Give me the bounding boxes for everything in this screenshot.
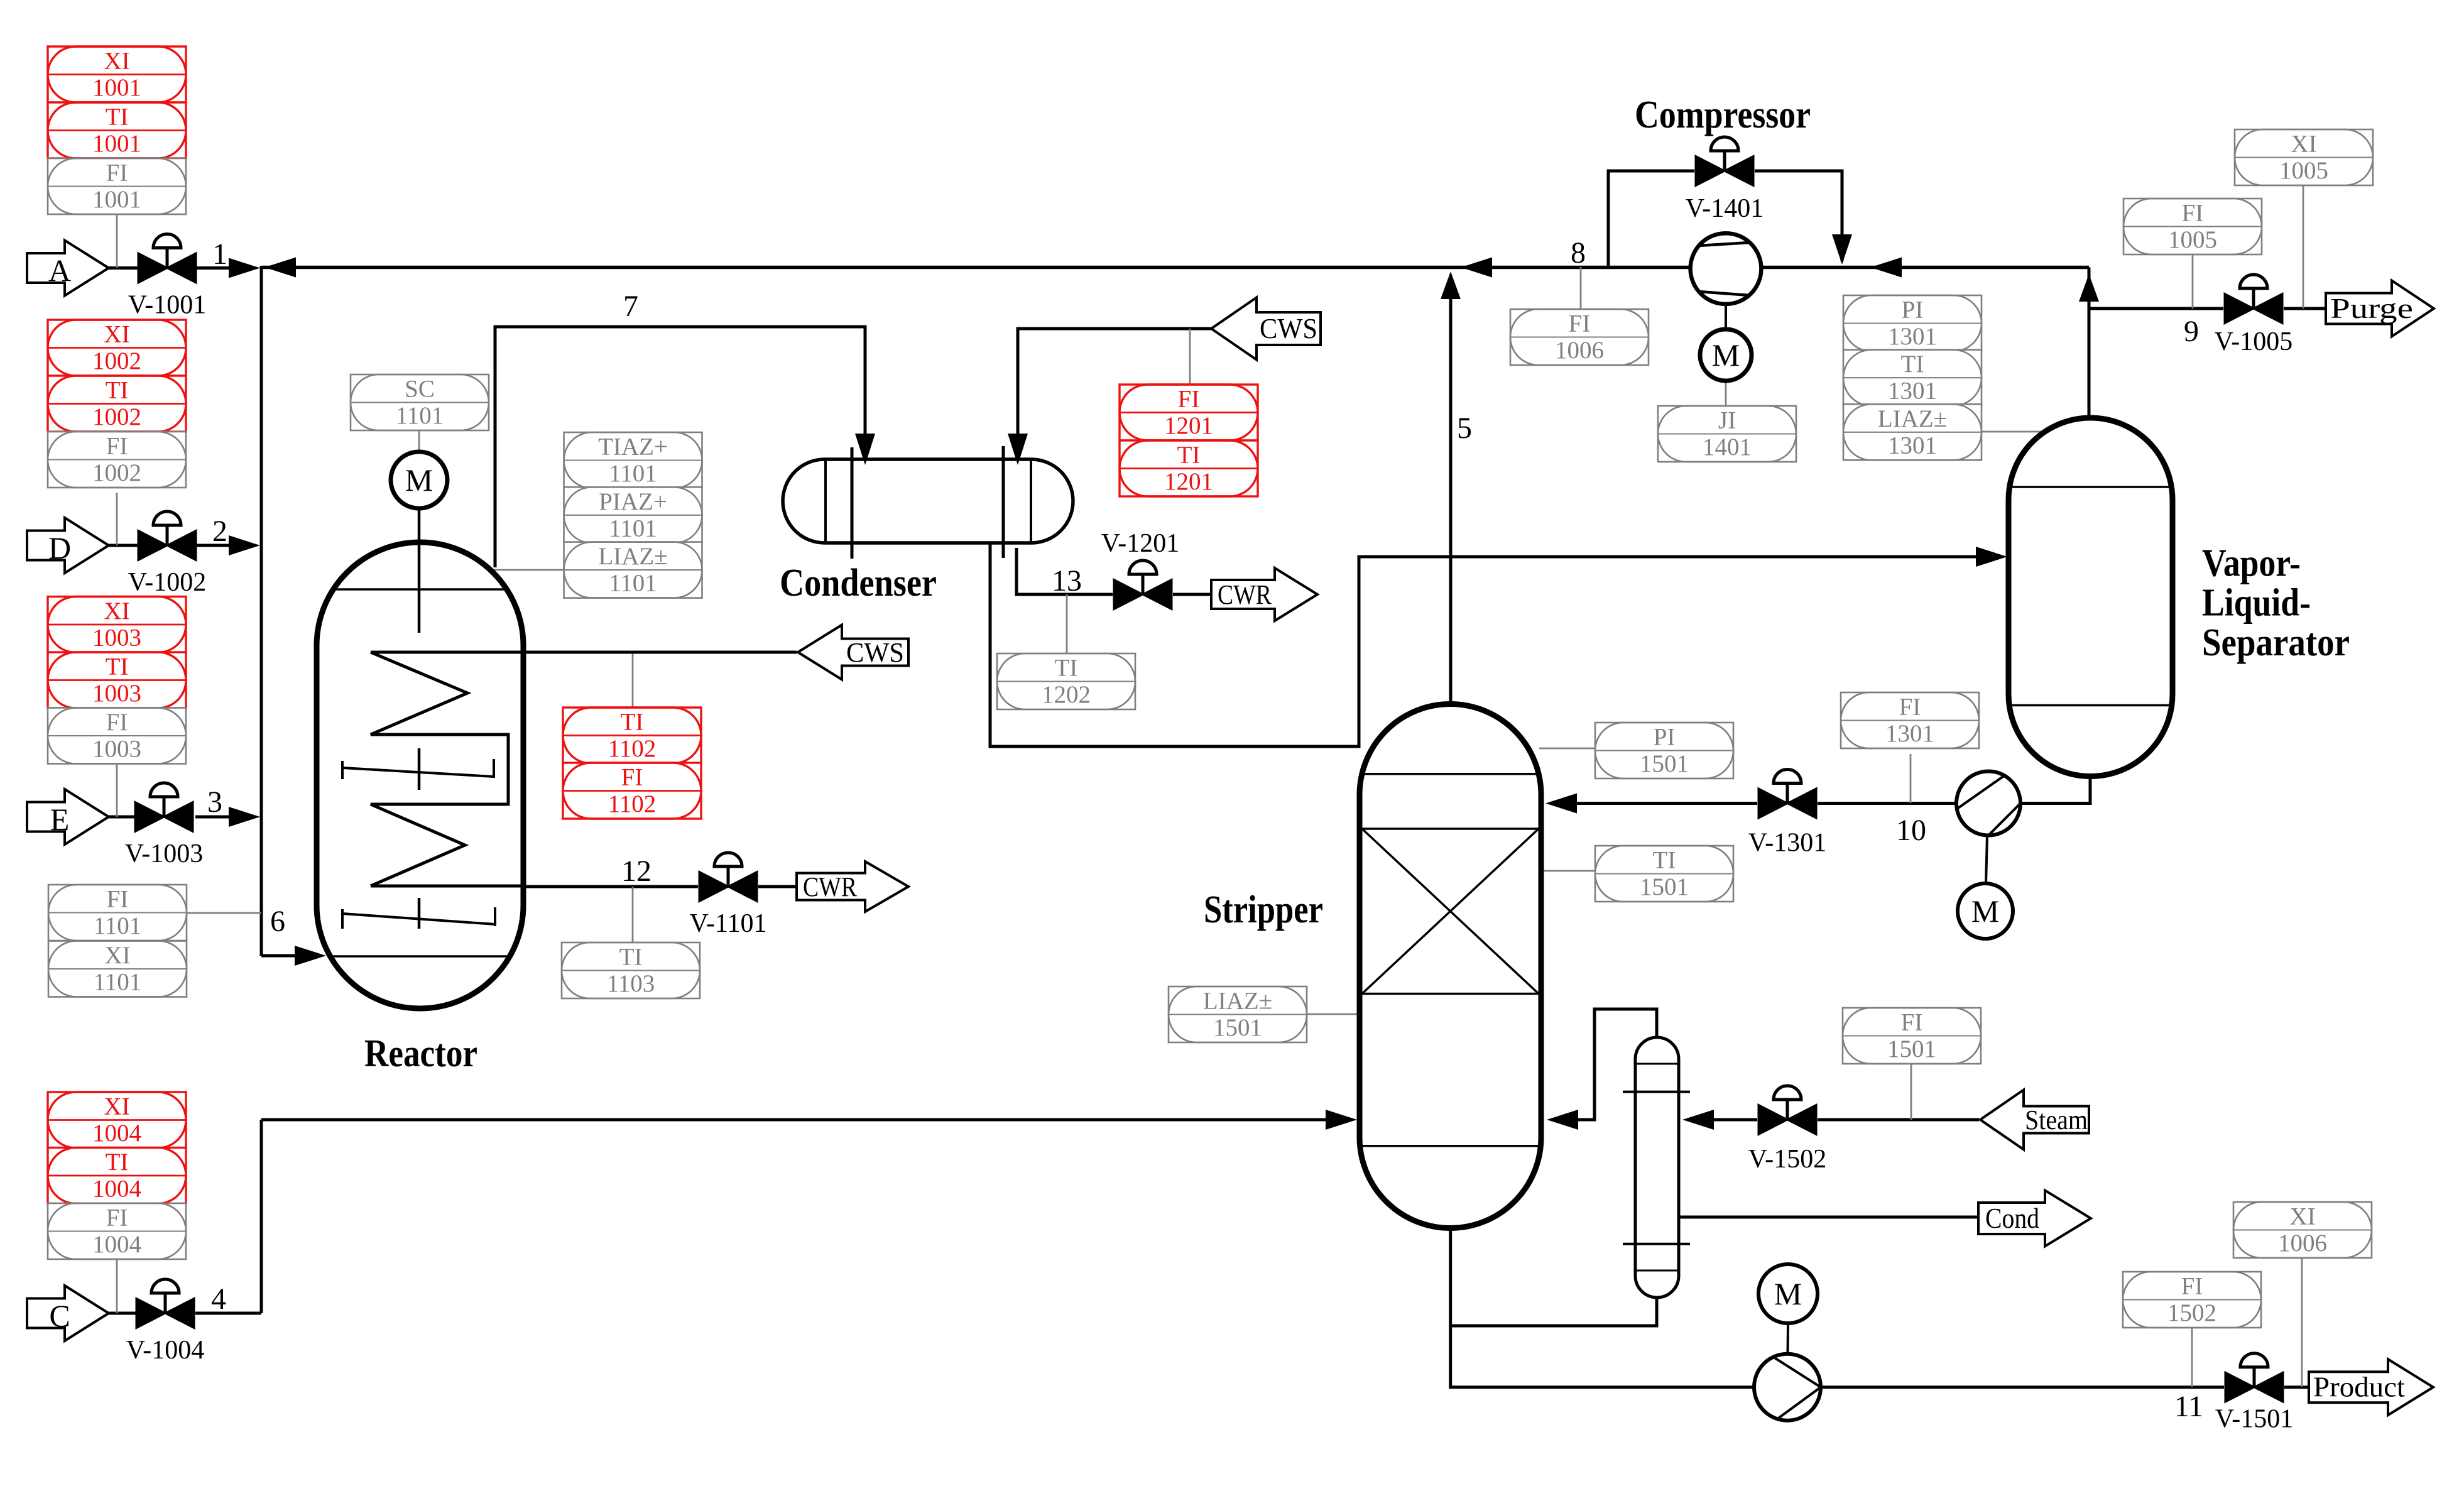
stripper packing bottom <box>1362 993 1539 995</box>
svg-text:TI: TI <box>106 1149 129 1176</box>
outlet arrow Product <box>2309 1359 2433 1415</box>
arrow recycle into junction <box>264 258 296 278</box>
wire condenser CWS inlet drop <box>1018 329 1211 461</box>
svg-text:V-1005: V-1005 <box>2215 327 2292 356</box>
svg-text:1001: 1001 <box>92 74 141 101</box>
instrument tag LIAZ&#177; 1501 <box>1169 986 1307 1042</box>
arrow stream 10 into stripper <box>1545 794 1577 814</box>
svg-text:1001: 1001 <box>92 186 141 213</box>
svg-text:Condenser: Condenser <box>780 562 937 604</box>
outlet arrow Cond <box>1978 1191 2091 1247</box>
wire stream 9 purge line <box>2089 307 2327 310</box>
arrow recycle mid (left of stream 8) <box>1461 258 1492 278</box>
instrument tag TI 1004 <box>48 1148 186 1204</box>
wire FI1002 tap <box>116 493 118 545</box>
svg-text:V-1004: V-1004 <box>126 1336 204 1365</box>
wire stream 3 from E <box>109 816 237 819</box>
wire junction vertical feed header x=416 <box>260 266 263 956</box>
svg-text:TI: TI <box>106 653 129 680</box>
feed arrow C <box>27 1286 109 1341</box>
svg-text:M: M <box>405 462 433 498</box>
svg-text:2: 2 <box>212 515 227 548</box>
wire stream 1 from A <box>109 266 237 270</box>
wire separator vapor to main line <box>2088 268 2091 422</box>
instrument tag FI 1005 <box>2123 199 2262 254</box>
svg-text:Cond: Cond <box>1985 1203 2039 1234</box>
valve V-1401 <box>1696 137 1753 186</box>
wire reboiler vapor return to stripper <box>1571 1009 1657 1120</box>
label stream 6 <box>270 905 285 938</box>
reactor coil inlet CWS line <box>371 651 797 654</box>
svg-text:1101: 1101 <box>609 515 657 542</box>
valve V-1001 <box>128 234 206 320</box>
stripper packing top <box>1362 828 1539 830</box>
arrow stream 5 into main line <box>1441 271 1461 299</box>
svg-text:LIAZ±: LIAZ± <box>1878 405 1947 432</box>
svg-text:FI: FI <box>106 433 128 460</box>
wire stream 2 from D <box>109 544 237 547</box>
svg-text:M: M <box>1712 337 1740 373</box>
arrow stream 6 into reactor <box>295 946 326 966</box>
svg-text:9: 9 <box>2184 315 2199 348</box>
instrument tag PIAZ+ 1101 <box>564 487 702 543</box>
svg-text:1003: 1003 <box>92 736 141 763</box>
wire compressor bypass loop <box>1608 171 1842 268</box>
wire reboiler bottoms <box>1451 1296 1657 1326</box>
svg-text:1101: 1101 <box>396 402 444 429</box>
instrument tag XI 1006 <box>2233 1202 2372 1258</box>
reboiler lower tubesheet <box>1623 1243 1690 1245</box>
separator pump <box>1956 772 2020 836</box>
instrument tag FI 1001 <box>48 158 186 214</box>
svg-text:TI: TI <box>621 709 644 736</box>
wire stream 10 separator liquid to stripper <box>1568 778 2090 804</box>
svg-text:3: 3 <box>207 785 222 819</box>
wire stream 11 stripper bottoms to product <box>1451 1226 2311 1387</box>
svg-text:1101: 1101 <box>609 460 657 487</box>
wire FI1502 tap <box>2191 1328 2193 1387</box>
label Stripper <box>1204 888 1323 931</box>
condenser left head seam <box>824 461 827 542</box>
svg-text:1301: 1301 <box>1885 720 1934 747</box>
outlet arrow CWR 12 <box>797 861 908 912</box>
svg-text:TI: TI <box>106 104 129 131</box>
svg-text:XI: XI <box>2289 1203 2315 1230</box>
wire stream 4 riser and feed to stripper <box>261 1120 1338 1313</box>
stripper packing X <box>1362 829 1539 994</box>
wire FI1301 tap <box>1910 754 1912 803</box>
reactor cooling coil <box>371 652 508 886</box>
compressor motor M <box>1700 304 1752 381</box>
svg-text:TI: TI <box>106 377 129 404</box>
svg-text:1301: 1301 <box>1888 432 1937 459</box>
wire FI1501 tap <box>1911 1063 1912 1120</box>
svg-text:1101: 1101 <box>94 912 142 939</box>
label stream 9 <box>2184 315 2199 348</box>
instrument tag FI 1101 <box>48 885 187 941</box>
wire condenser outlet to separator <box>990 540 1997 746</box>
svg-text:M: M <box>1774 1276 1802 1311</box>
svg-text:XI: XI <box>2291 131 2316 158</box>
arrow stream 3 into header <box>229 807 260 827</box>
valve V-1002 <box>128 511 206 597</box>
label stream 10 <box>1896 814 1926 847</box>
svg-text:V-1101: V-1101 <box>690 909 767 938</box>
svg-text:FI: FI <box>106 709 128 736</box>
label stream 3 <box>207 785 222 819</box>
instrument tag TI 1301 <box>1843 350 1982 406</box>
svg-text:LIAZ±: LIAZ± <box>598 543 667 570</box>
wire stream 12 coil outlet to CWR <box>519 885 799 888</box>
svg-text:FI: FI <box>1178 386 1200 413</box>
label stream 2 <box>212 515 227 548</box>
wire FI1006 tap <box>1580 267 1582 309</box>
svg-text:13: 13 <box>1052 564 1082 598</box>
svg-text:1004: 1004 <box>92 1120 141 1147</box>
instrument tag TI 1201 <box>1120 440 1258 496</box>
svg-text:CWS: CWS <box>1260 313 1317 344</box>
svg-text:V-1501: V-1501 <box>2215 1405 2293 1434</box>
wire FI1003 tap <box>116 763 118 817</box>
product pump motor M <box>1758 1264 1818 1354</box>
label Compressor <box>1635 94 1811 136</box>
svg-text:TI: TI <box>619 944 643 971</box>
reboiler bottom seam <box>1636 1270 1678 1272</box>
wire TIAZ1101 tap <box>489 569 564 571</box>
label V-1401 <box>1686 194 1764 223</box>
svg-text:TIAZ+: TIAZ+ <box>598 434 668 461</box>
svg-text:FI: FI <box>1569 310 1591 337</box>
svg-text:CWR: CWR <box>1218 579 1272 610</box>
arrow condenser outlet into separator <box>1976 547 2007 567</box>
feed arrow D <box>27 518 109 573</box>
compressor <box>1691 233 1762 304</box>
svg-text:Compressor: Compressor <box>1635 94 1811 136</box>
svg-text:TI: TI <box>1901 351 1924 378</box>
instrument tag TI 1501 <box>1595 846 1733 902</box>
reboiler upper tubesheet <box>1623 1091 1690 1093</box>
label stream 4 <box>211 1282 226 1316</box>
valve V-1004 <box>126 1279 204 1365</box>
svg-text:V-1003: V-1003 <box>125 839 203 868</box>
wire LIAZ1501 tap <box>1306 1013 1361 1015</box>
wire TI1202 tap <box>1066 594 1068 653</box>
wire stream 6 into reactor <box>261 954 317 958</box>
wire SC1101 tap <box>418 430 420 454</box>
svg-text:1301: 1301 <box>1888 323 1937 350</box>
separator vessel <box>2009 418 2172 777</box>
reactor liquid level line <box>332 955 510 958</box>
label stream 12 <box>621 855 651 888</box>
svg-text:1006: 1006 <box>1555 337 1604 364</box>
instrument tag FI 1006 <box>1510 309 1649 365</box>
instrument tag XI 1002 <box>48 320 186 376</box>
svg-text:Steam: Steam <box>2025 1105 2088 1135</box>
svg-text:1102: 1102 <box>608 790 657 817</box>
reactor coil outlet line <box>371 885 521 888</box>
svg-text:1501: 1501 <box>1640 750 1689 777</box>
instrument tag LIAZ&#177; 1101 <box>564 542 702 598</box>
instrument tag XI 1001 <box>48 46 186 102</box>
svg-text:FI: FI <box>1901 1009 1923 1036</box>
instrument tag TI 1103 <box>562 942 700 998</box>
svg-text:1301: 1301 <box>1888 378 1937 405</box>
svg-text:E: E <box>50 802 70 837</box>
svg-text:JI: JI <box>1718 407 1736 434</box>
wire FI1101 tap <box>186 912 261 914</box>
instrument tag FI 1004 <box>48 1203 186 1259</box>
svg-text:1003: 1003 <box>92 680 141 707</box>
arrow stream 2 into header <box>229 535 260 555</box>
svg-text:1501: 1501 <box>1887 1035 1936 1063</box>
instrument tag PI 1301 <box>1843 295 1982 351</box>
svg-text:V-1401: V-1401 <box>1686 194 1764 223</box>
arrow into compressor suction <box>1870 258 1902 278</box>
svg-text:1101: 1101 <box>94 969 142 996</box>
svg-text:XI: XI <box>104 321 129 348</box>
arrow stream 1 into junction <box>229 258 260 278</box>
wire TI1102 tap <box>632 652 634 707</box>
instrument tag TI 1002 <box>48 376 186 432</box>
instrument tag FI 1301 <box>1841 692 1979 748</box>
instrument tag PI 1501 <box>1595 723 1733 779</box>
label stream 1 <box>212 238 227 271</box>
instrument tag XI 1003 <box>48 597 186 653</box>
svg-text:CWR: CWR <box>803 871 858 902</box>
inlet arrow Steam <box>1980 1090 2089 1150</box>
svg-text:5: 5 <box>1457 412 1472 445</box>
arrow reboiler vapor into stripper <box>1547 1110 1578 1130</box>
svg-text:XI: XI <box>104 48 129 75</box>
instrument tag FI 1502 <box>2123 1272 2261 1328</box>
feed arrow E <box>27 789 109 844</box>
separator top seam <box>2010 486 2171 488</box>
reactor agitator motor M <box>391 452 447 508</box>
reboiler shell <box>1635 1037 1679 1298</box>
reactor agitator shaft <box>418 508 421 929</box>
valve V-1003 <box>125 783 203 868</box>
instrument tag JI 1401 <box>1658 406 1796 462</box>
svg-text:Stripper: Stripper <box>1204 888 1323 931</box>
wire FI1001 tap <box>116 214 118 268</box>
svg-text:FI: FI <box>1899 694 1921 721</box>
label V-1201 <box>1101 529 1179 558</box>
instrument tag FI 1003 <box>48 708 186 764</box>
svg-text:1201: 1201 <box>1164 468 1213 495</box>
svg-text:1201: 1201 <box>1164 412 1213 439</box>
outlet arrow CWR 13 <box>1211 568 1317 621</box>
inlet arrow CWS top <box>1211 298 1321 360</box>
svg-text:Reactor: Reactor <box>364 1032 477 1075</box>
arrow stream 4 into stripper <box>1326 1110 1357 1130</box>
wire stream 7 reactor overhead to condenser <box>495 327 865 567</box>
svg-text:1003: 1003 <box>92 625 141 652</box>
svg-text:D: D <box>48 530 71 565</box>
svg-text:V-1001: V-1001 <box>128 291 206 320</box>
separator pump motor M <box>1958 836 2013 939</box>
svg-text:SC: SC <box>405 376 435 403</box>
stripper vessel <box>1360 704 1541 1228</box>
svg-text:1101: 1101 <box>609 570 657 597</box>
instrument tag FI 1201 <box>1120 385 1258 440</box>
svg-text:XI: XI <box>104 598 129 625</box>
feed arrow A <box>27 241 109 296</box>
condenser right head seam <box>1030 461 1032 542</box>
svg-text:1401: 1401 <box>1703 434 1752 461</box>
svg-text:1502: 1502 <box>2167 1299 2216 1326</box>
instrument tag TI 1102 <box>563 707 701 763</box>
arrow separator vapor up <box>2079 274 2099 302</box>
svg-text:1005: 1005 <box>2168 226 2217 253</box>
valve V-1101 <box>690 853 767 938</box>
valve V-1201 <box>1114 560 1172 609</box>
instrument tag XI 1101 <box>48 941 187 997</box>
wire stream 13 condensate CWR <box>1017 548 1213 594</box>
reactor impeller blade lower <box>342 907 495 929</box>
arrow bypass down <box>1832 234 1852 265</box>
instrument tag TIAZ+ 1101 <box>564 432 702 488</box>
svg-text:FI: FI <box>2182 200 2204 227</box>
label stream 7 <box>623 290 638 323</box>
valve V-1502 <box>1748 1086 1826 1174</box>
reactor head seam <box>333 588 506 591</box>
instrument tag TI 1202 <box>997 653 1135 709</box>
wire TI1501 tap <box>1539 870 1595 872</box>
label Condenser <box>780 562 937 604</box>
wire LIAZ1301 tap <box>1980 431 2048 433</box>
svg-text:10: 10 <box>1896 814 1926 847</box>
separator liquid level <box>2009 704 2172 707</box>
svg-text:TI: TI <box>1177 442 1201 469</box>
condenser shell <box>783 459 1073 543</box>
svg-text:PI: PI <box>1654 724 1676 751</box>
reboiler top seam <box>1636 1063 1678 1065</box>
svg-text:4: 4 <box>211 1282 226 1316</box>
wire FI1005 tap <box>2192 253 2194 309</box>
svg-text:1501: 1501 <box>1213 1014 1262 1041</box>
svg-text:CWS: CWS <box>846 637 904 668</box>
svg-text:1002: 1002 <box>92 403 141 430</box>
stripper top seam <box>1361 773 1539 775</box>
svg-text:FI: FI <box>621 764 643 791</box>
wire PI1501 tap <box>1539 748 1595 750</box>
svg-text:1102: 1102 <box>608 735 657 762</box>
svg-text:FI: FI <box>106 1205 128 1232</box>
label Reactor <box>364 1032 477 1075</box>
wire stream 5 stripper overhead <box>1449 275 1453 704</box>
stripper lower seam <box>1361 1145 1539 1147</box>
svg-text:V-1201: V-1201 <box>1101 529 1179 558</box>
wire FI1004 tap <box>116 1259 118 1313</box>
svg-text:FI: FI <box>2181 1273 2203 1300</box>
condenser left tubesheet <box>851 447 854 559</box>
reactor impeller blade upper <box>342 759 494 779</box>
valve V-1501 <box>2215 1353 2293 1434</box>
svg-text:XI: XI <box>104 942 130 969</box>
svg-text:1005: 1005 <box>2279 157 2328 184</box>
svg-text:1: 1 <box>212 238 227 271</box>
instrument tag FI 1501 <box>1843 1008 1981 1064</box>
instrument tag TI 1001 <box>48 102 186 158</box>
label stream 13 <box>1052 564 1082 598</box>
svg-text:11: 11 <box>2174 1390 2203 1423</box>
svg-text:Product: Product <box>2313 1372 2406 1403</box>
svg-text:C: C <box>49 1298 70 1333</box>
label Vapor-Liquid-Separator <box>2202 542 2350 665</box>
valve V-1005 <box>2215 275 2292 356</box>
svg-text:1001: 1001 <box>92 130 141 157</box>
svg-text:Purge: Purge <box>2330 293 2413 324</box>
arrow CWS into condenser <box>1008 434 1028 465</box>
svg-text:1002: 1002 <box>92 459 141 486</box>
svg-text:1004: 1004 <box>92 1176 141 1203</box>
svg-text:Vapor-: Vapor- <box>2202 542 2301 585</box>
svg-text:TI: TI <box>1653 847 1676 874</box>
svg-text:Separator: Separator <box>2202 621 2350 664</box>
wire JI1401 tap <box>1725 380 1727 406</box>
svg-text:1501: 1501 <box>1640 873 1689 900</box>
instrument tag TI 1003 <box>48 652 186 708</box>
wire TI1103 tap <box>632 887 634 942</box>
svg-text:V-1301: V-1301 <box>1748 829 1826 858</box>
instrument tag FI 1002 <box>48 432 186 488</box>
instrument tag LIAZ&#177; 1301 <box>1843 404 1982 460</box>
label stream 11 <box>2174 1390 2203 1423</box>
arrow stream 7 into condenser <box>855 434 875 465</box>
svg-text:PI: PI <box>1902 297 1924 324</box>
svg-text:12: 12 <box>621 855 651 888</box>
instrument tag XI 1004 <box>48 1092 186 1148</box>
reactor vessel <box>317 542 523 1008</box>
instrument tag SC 1101 <box>351 374 489 430</box>
condenser right tubesheet <box>1002 446 1005 558</box>
svg-text:8: 8 <box>1571 236 1586 270</box>
wire steam line into reboiler <box>1690 1118 1979 1122</box>
inlet arrow CWS mid <box>798 625 908 680</box>
wire FI1201 tap <box>1189 329 1191 385</box>
svg-text:1103: 1103 <box>607 970 655 997</box>
outlet arrow Purge <box>2326 281 2434 337</box>
wire condensate outlet line (Cond) <box>1679 1216 1980 1219</box>
svg-text:PIAZ+: PIAZ+ <box>599 488 667 515</box>
svg-text:LIAZ±: LIAZ± <box>1203 988 1272 1015</box>
wire XI1006 tap <box>2301 1257 2303 1387</box>
wire XI1005 tap <box>2303 185 2304 309</box>
svg-text:FI: FI <box>106 160 128 187</box>
svg-text:7: 7 <box>623 290 638 323</box>
svg-text:TI: TI <box>1055 655 1078 682</box>
instrument tag XI 1005 <box>2235 129 2373 185</box>
wire main recycle line (stream 1..8 header, y=425) <box>261 266 2089 270</box>
svg-text:1006: 1006 <box>2278 1230 2327 1257</box>
svg-text:M: M <box>1971 893 1999 929</box>
label stream 8 <box>1571 236 1586 270</box>
svg-text:V-1002: V-1002 <box>128 568 206 597</box>
svg-text:V-1502: V-1502 <box>1748 1145 1826 1174</box>
svg-text:6: 6 <box>270 905 285 938</box>
instrument tag FI 1102 <box>563 763 701 819</box>
wire stream 4 from C <box>109 1312 261 1315</box>
svg-text:A: A <box>48 253 71 288</box>
svg-text:FI: FI <box>107 886 129 913</box>
arrow steam into reboiler <box>1682 1110 1714 1130</box>
svg-text:1004: 1004 <box>92 1231 141 1258</box>
product pump <box>1754 1354 1821 1421</box>
svg-text:1202: 1202 <box>1042 681 1091 708</box>
svg-text:1002: 1002 <box>92 347 141 374</box>
svg-text:Liquid-: Liquid- <box>2202 582 2311 625</box>
label stream 5 <box>1457 412 1472 445</box>
